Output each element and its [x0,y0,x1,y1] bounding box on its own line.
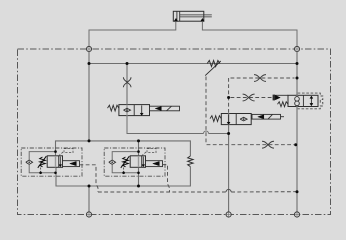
wire cylinder cap-port to port B [202,21,297,46]
wire V1 output [127,116,204,134]
orifice X4 [262,141,274,148]
orifice X2 [254,75,266,82]
drain RV1 dashed [80,165,99,192]
wire center rail [56,141,191,156]
valve V1 2-2 solenoid cartridge [119,105,150,116]
wire bridge line [89,63,297,65]
compensator adjustable spring [207,61,220,67]
port T1 [86,212,91,217]
node drain-B [296,190,299,193]
wire B-line vertical upper [296,52,298,96]
node pilot-branch [227,96,230,99]
wire valve V1 supply vertical [126,64,128,105]
plugged orifice X1 [123,77,131,87]
relief valve assembly RV2 [104,148,165,176]
manifold enclosure border (dash-dot) [18,49,331,215]
wire cylinder rod-port to port A [89,21,176,46]
node V1-V2 [227,132,230,135]
wire port T1 drop [88,186,90,212]
wire RV2 return [138,167,140,186]
node RV2-rail [137,185,140,188]
valve V3 pilot-operated cartridge [298,93,323,109]
node T1-rail [88,185,91,188]
node RV2-feed [137,139,140,142]
pilot line to V3 dashed [231,97,273,99]
drain rail dashed [98,191,226,193]
pilot branch vertical dashed [228,78,230,114]
port T3 [294,212,299,217]
drain RV2 dashed [163,165,170,192]
port T2 [226,212,231,217]
bypass spring [188,156,193,167]
port A [86,46,91,51]
relief valve assembly RV1 [21,148,82,176]
wire return rail [56,167,190,186]
pilot line upper dashed [231,77,295,79]
node V1-supply [126,62,129,65]
wire A-line vertical [88,52,90,141]
port B [294,46,299,51]
wire B-line lower [296,107,298,212]
node pilot-top [296,77,299,80]
node center-A [88,139,91,142]
wire V2 line lower [228,125,230,212]
wire RV2 feed [138,141,140,156]
node B-bridge [296,62,299,65]
hydraulic cylinder [173,11,204,21]
node orifice-B [294,143,297,146]
node A-bridge [88,62,91,65]
compensator pilot dashed vertical [206,77,294,145]
orifice X3 [243,94,255,101]
valve V2 2-2 solenoid cartridge [221,114,251,125]
